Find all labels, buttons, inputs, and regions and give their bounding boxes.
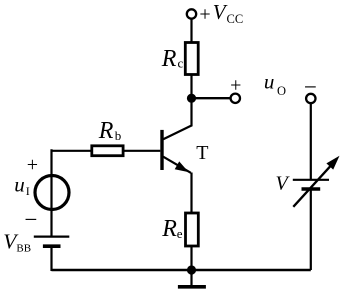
svg-text:+: + [230, 74, 241, 96]
svg-text:u: u [14, 172, 25, 196]
terminal output + [231, 94, 240, 103]
wire: right branch upper [310, 103, 312, 180]
svg-text:u: u [264, 69, 275, 93]
wire: bottom rail [52, 269, 311, 271]
wire: battery to bottom rail [50, 247, 52, 272]
wire: emitter diagonal [163, 157, 191, 173]
svg-text:R: R [161, 46, 177, 72]
battery VBB plate short [43, 244, 61, 248]
svg-text:c: c [178, 55, 184, 70]
battery VBB plate long [34, 236, 70, 238]
resistor Rc [185, 43, 198, 75]
resistor Rb [92, 146, 123, 156]
wire: Re bottom to ground node [190, 246, 192, 270]
transistor T base bar [160, 130, 163, 170]
source uI circle [35, 176, 69, 210]
emitter arrowhead [175, 161, 189, 172]
ground [190, 270, 192, 285]
node emitter/ground junction [187, 265, 196, 274]
svg-text:CC: CC [227, 12, 244, 26]
svg-text:O: O [277, 84, 286, 98]
svg-text:T: T [196, 142, 208, 164]
svg-text:b: b [115, 128, 122, 143]
svg-text:BB: BB [16, 243, 31, 255]
svg-text:+: + [199, 4, 210, 26]
terminal output - [306, 94, 315, 103]
battery V plate long [293, 179, 329, 181]
svg-text:e: e [177, 226, 183, 241]
terminal +VCC [187, 9, 196, 18]
resistor Re [186, 213, 199, 246]
wire: node to output + terminal [192, 97, 231, 99]
arrow across battery V [293, 164, 332, 207]
svg-text:V: V [276, 173, 291, 195]
node collector junction [187, 94, 196, 103]
svg-text:+: + [27, 154, 38, 176]
wire: base wire from source to bar [52, 150, 161, 152]
svg-text:−: − [25, 207, 38, 232]
svg-text:R: R [161, 216, 177, 242]
wire: Rc bottom to collector node [190, 75, 192, 99]
wire: emitter vertical to Re [190, 173, 192, 215]
svg-text:I: I [26, 184, 30, 198]
wire: left branch down through source [50, 149, 52, 236]
wire: VCC terminal to Rc top [190, 19, 192, 44]
battery V plate short [302, 187, 321, 191]
wire: right branch lower [310, 189, 312, 270]
wire: collector vertical and diagonal into base bar [163, 98, 191, 139]
svg-text:R: R [98, 118, 114, 144]
